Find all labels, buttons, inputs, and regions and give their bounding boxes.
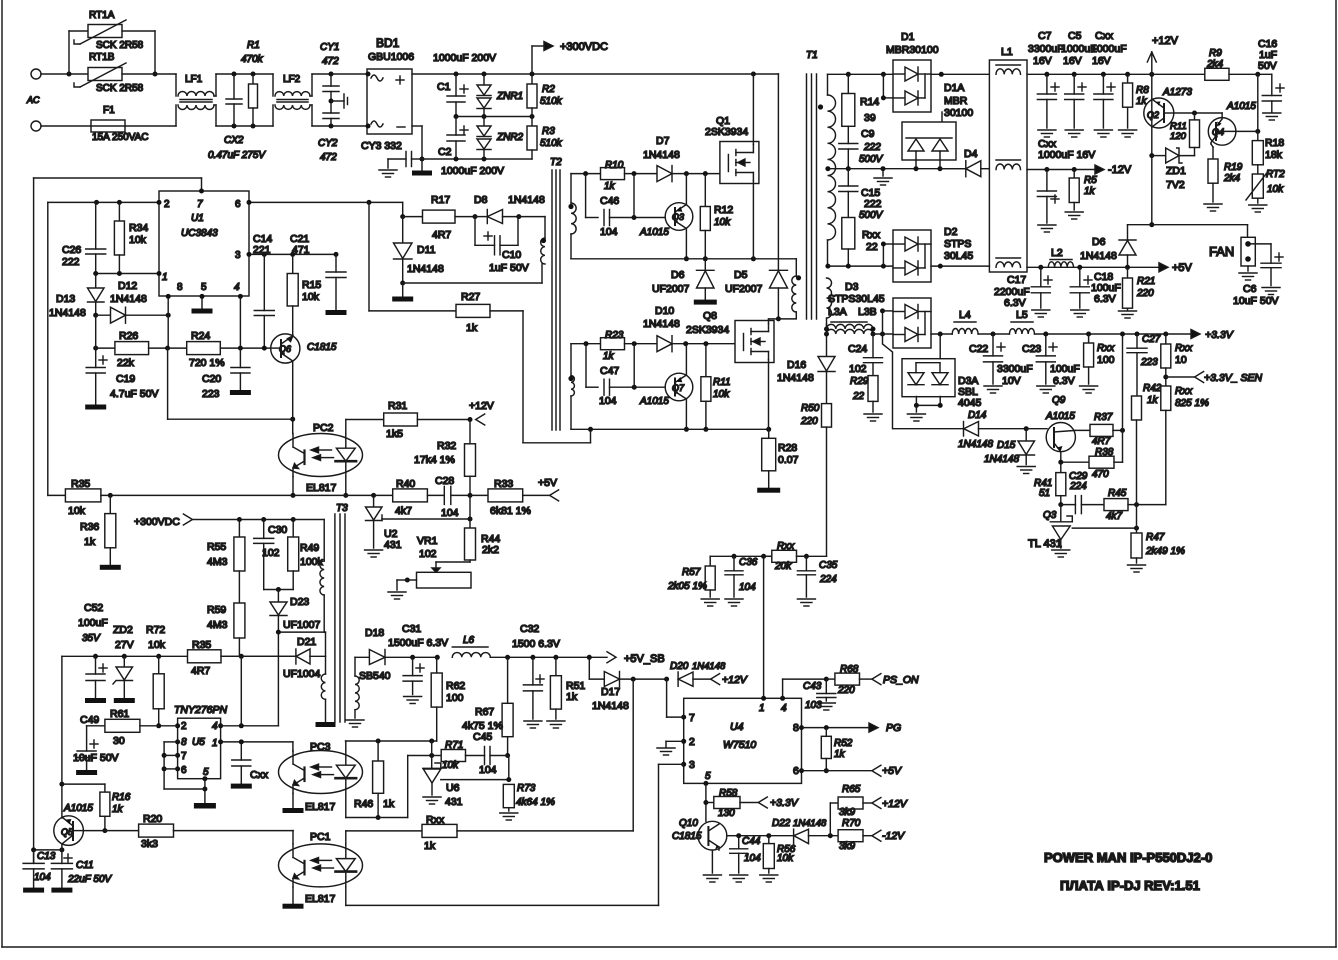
svg-text:2k4: 2k4: [1206, 59, 1224, 70]
svg-text:10: 10: [1175, 354, 1187, 366]
svg-text:470k: 470k: [241, 54, 264, 65]
svg-text:10k: 10k: [302, 291, 320, 303]
svg-text:222: 222: [863, 142, 881, 153]
resistor Rxx1k: [422, 814, 633, 852]
diode D4: [940, 148, 989, 177]
svg-text:A1015: A1015: [639, 227, 669, 238]
svg-text:CX2: CX2: [224, 135, 244, 146]
svg-text:A1015: A1015: [1045, 411, 1075, 422]
svg-text:22uF 50V: 22uF 50V: [67, 874, 113, 885]
diode D6b 1N4148: [1080, 225, 1136, 268]
svg-text:4.7uF 50V: 4.7uF 50V: [110, 388, 158, 400]
wire: [939, 334, 941, 359]
svg-text:R61: R61: [110, 708, 129, 720]
svg-text:R57: R57: [682, 567, 701, 578]
svg-text:10k: 10k: [714, 217, 731, 228]
optocoupler PC3: [279, 741, 363, 813]
resistor R72: [146, 624, 166, 726]
wire fan feed: [1128, 156, 1248, 238]
wire: [1058, 452, 1063, 465]
varistor ZNR2: [477, 117, 524, 160]
svg-text:MBR: MBR: [944, 95, 968, 107]
diode D16: [777, 324, 835, 404]
svg-text:1N4148: 1N4148: [777, 372, 814, 384]
svg-text:C17: C17: [1007, 274, 1026, 286]
wire pin7: [667, 679, 684, 717]
wire: [291, 477, 296, 498]
diode D22: [772, 818, 838, 844]
svg-text:6: 6: [235, 199, 241, 210]
resistor R55: [207, 520, 245, 572]
resistor R56: [760, 836, 796, 882]
svg-text:R35: R35: [71, 478, 90, 490]
wire: [168, 348, 293, 419]
resistor R10: [601, 160, 658, 192]
svg-text:R52: R52: [834, 738, 853, 749]
svg-text:6.3V: 6.3V: [1053, 375, 1075, 387]
wire +12V feed: [523, 311, 591, 443]
wire PC1 cathode: [346, 764, 659, 905]
wire PC3 emitter: [283, 794, 304, 814]
svg-text:C11: C11: [76, 860, 94, 871]
svg-text:4k64 1%: 4k64 1%: [516, 797, 555, 808]
svg-text:1k: 1k: [112, 804, 124, 815]
resistor R15: [287, 254, 321, 306]
resistor R57: [667, 556, 719, 606]
svg-text:1k: 1k: [383, 798, 395, 810]
svg-text:EL817: EL817: [305, 893, 336, 905]
capacitor C26: [62, 202, 106, 273]
optocoupler PC2: [279, 419, 363, 494]
wire pin1 net: [221, 739, 293, 751]
svg-text:L3A: L3A: [828, 306, 847, 318]
svg-text:C52: C52: [84, 602, 103, 614]
resistor R70: [838, 818, 905, 852]
resistor Rxx20k: [764, 541, 807, 572]
wire Q8 source: [768, 360, 770, 430]
svg-text:Q3: Q3: [672, 212, 684, 222]
capacitor C22: [969, 334, 1033, 393]
thermistor RT2: [1246, 165, 1285, 212]
rectifier D3A: [902, 359, 982, 409]
+5V arrow: [1159, 262, 1193, 274]
wire: [633, 344, 635, 388]
svg-text:ПЛАТА IP-DJ REV:1.51: ПЛАТА IP-DJ REV:1.51: [1060, 878, 1200, 893]
svg-text:1N4148: 1N4148: [793, 818, 827, 829]
fan connector: [1209, 237, 1255, 266]
svg-text:L6: L6: [463, 635, 475, 646]
svg-text:1N4148: 1N4148: [508, 194, 545, 206]
capacitor C16: [1262, 74, 1284, 120]
resistor R29: [850, 376, 882, 421]
transistor Q3: [639, 203, 693, 238]
resistor R58: [706, 788, 799, 819]
wire: [69, 31, 88, 74]
svg-text:10k: 10k: [1267, 184, 1284, 195]
zener ZD1: [1149, 148, 1194, 191]
svg-text:4R7: 4R7: [432, 229, 451, 241]
svg-text:1: 1: [162, 272, 168, 283]
svg-text:D1A: D1A: [944, 82, 964, 94]
svg-text:D8: D8: [474, 194, 488, 206]
svg-text:R72: R72: [146, 624, 165, 636]
svg-text:R49: R49: [300, 542, 319, 554]
svg-text:UF1004: UF1004: [283, 668, 321, 680]
IC U5 TNY276PN: [174, 704, 228, 781]
svg-text:R34: R34: [129, 222, 148, 234]
resistor R27: [369, 291, 523, 334]
capacitor C7: [1037, 74, 1059, 137]
svg-text:R8: R8: [1136, 85, 1149, 96]
svg-text:C35: C35: [819, 560, 838, 571]
svg-text:R24: R24: [191, 330, 210, 342]
wire: [290, 361, 295, 422]
svg-text:10k: 10k: [777, 853, 794, 864]
capacitor C17: [994, 267, 1052, 317]
svg-text:10uF 50V: 10uF 50V: [73, 752, 119, 764]
svg-text:Cxx: Cxx: [1095, 30, 1114, 42]
svg-text:1N4148: 1N4148: [110, 293, 147, 305]
inductor LF1: [178, 74, 214, 110]
label: [433, 52, 496, 64]
svg-text:C45: C45: [473, 731, 492, 743]
wire: [684, 344, 689, 432]
diode D17: [589, 657, 669, 712]
capacitor C15: [839, 169, 884, 221]
capacitor Cxx: [1094, 74, 1115, 137]
svg-text:472: 472: [322, 56, 339, 67]
resistor R46: [354, 741, 395, 820]
wire top bus: [412, 72, 778, 77]
capacitor C35: [797, 556, 837, 606]
svg-text:R28: R28: [778, 442, 797, 454]
svg-text:+12V: +12V: [882, 798, 908, 810]
svg-text:10uF 50V: 10uF 50V: [1233, 295, 1279, 307]
svg-text:220: 220: [837, 685, 855, 696]
resistor R20: [83, 813, 293, 850]
svg-text:R29: R29: [850, 376, 869, 387]
svg-text:C27: C27: [1142, 334, 1161, 345]
svg-text:4: 4: [234, 282, 240, 293]
wire: [41, 125, 91, 127]
wire PC1 anode: [346, 831, 422, 844]
svg-text:A1015: A1015: [639, 396, 669, 407]
svg-text:C32: C32: [520, 623, 539, 635]
svg-text:0.47uF 275V: 0.47uF 275V: [208, 150, 266, 161]
resistor R68: [826, 664, 872, 696]
svg-text:C22: C22: [969, 343, 988, 355]
capacitor C23: [1022, 334, 1080, 393]
capacitor CY3: [361, 140, 422, 167]
capacitor C14: [254, 254, 274, 347]
svg-text:PG: PG: [886, 722, 901, 734]
svg-text:R62: R62: [446, 680, 465, 692]
svg-text:1N4148: 1N4148: [1080, 250, 1117, 262]
label C14: [253, 233, 272, 256]
svg-text:3: 3: [689, 759, 695, 771]
diode D14: [958, 410, 1029, 450]
svg-text:Q2: Q2: [1147, 110, 1159, 120]
svg-text:16V: 16V: [1033, 55, 1052, 67]
svg-text:1k: 1k: [1147, 395, 1159, 406]
svg-text:ZD1: ZD1: [1166, 165, 1186, 177]
svg-text:Q4: Q4: [1212, 127, 1224, 137]
svg-text:1000uF 16V: 1000uF 16V: [1038, 149, 1095, 161]
svg-text:104: 104: [744, 853, 761, 864]
svg-text:1k: 1k: [424, 840, 436, 852]
svg-text:104: 104: [479, 764, 497, 776]
diode D12: [93, 280, 171, 323]
inductor L4: [952, 309, 978, 334]
diode D23: [270, 590, 321, 633]
svg-text:C1: C1: [437, 81, 451, 93]
diode D10: [643, 305, 735, 352]
svg-text:7V2: 7V2: [1166, 179, 1185, 191]
wire pin4 net: [221, 632, 279, 728]
svg-text:R18: R18: [1265, 137, 1284, 149]
svg-text:2SK3934: 2SK3934: [705, 126, 748, 138]
svg-text:18k: 18k: [1265, 149, 1283, 161]
svg-text:500V: 500V: [859, 210, 884, 221]
svg-text:R19: R19: [1224, 162, 1243, 173]
svg-text:7: 7: [197, 199, 203, 210]
svg-text:6.3V: 6.3V: [1004, 297, 1026, 309]
transformer T1 core: [806, 50, 818, 319]
svg-text:D1: D1: [901, 31, 915, 43]
svg-text:+3.3V: +3.3V: [770, 797, 799, 809]
svg-text:+12V: +12V: [1152, 35, 1179, 47]
svg-text:4R7: 4R7: [191, 665, 210, 677]
svg-text:TL 431: TL 431: [1028, 538, 1062, 550]
resistor R33: [470, 478, 550, 517]
resistor R71: [432, 740, 485, 771]
svg-text:102: 102: [419, 548, 437, 560]
resistor R24: [165, 330, 271, 369]
resistor R37: [1075, 412, 1125, 447]
svg-text:510k: 510k: [540, 96, 563, 107]
svg-text:8: 8: [177, 282, 183, 293]
svg-text:L5: L5: [1016, 309, 1028, 321]
svg-text:6: 6: [181, 765, 187, 776]
svg-text:0.07: 0.07: [778, 454, 799, 466]
diode D5: [725, 269, 788, 321]
wire: [62, 784, 105, 818]
svg-text:PC3: PC3: [310, 741, 331, 753]
svg-text:PS_ON: PS_ON: [883, 674, 919, 686]
resistor R2: [527, 74, 563, 117]
svg-text:D16: D16: [787, 359, 806, 371]
transistor Q6: [271, 306, 337, 363]
resistor R51: [547, 657, 586, 728]
diode D20: [670, 661, 726, 686]
resistor R31: [346, 400, 470, 440]
bridge rectifier BD1: [366, 36, 415, 134]
+3.3V arrow: [1191, 329, 1234, 341]
wire standby rail: [62, 654, 296, 659]
wire: [907, 397, 942, 422]
svg-text:Q9: Q9: [1052, 395, 1066, 406]
+5V_SB arrow: [607, 652, 665, 665]
svg-text:EL817: EL817: [306, 482, 337, 494]
svg-text:22: 22: [852, 391, 865, 402]
wire: [571, 341, 601, 375]
wire pin8: [166, 294, 171, 348]
svg-text:+12V: +12V: [722, 674, 748, 686]
svg-text:SCK 2R58: SCK 2R58: [96, 40, 144, 51]
rectifier D2: [893, 226, 973, 282]
svg-text:2: 2: [164, 199, 170, 210]
diode D6: [652, 259, 717, 305]
svg-text:D22: D22: [772, 818, 791, 829]
svg-text:R23: R23: [605, 330, 624, 341]
svg-text:FAN: FAN: [1209, 244, 1234, 259]
wire: [931, 332, 952, 337]
svg-text:C30: C30: [268, 524, 287, 536]
capacitor C52: [85, 656, 107, 703]
svg-text:C20: C20: [202, 373, 221, 385]
resistor R47: [1128, 532, 1186, 572]
svg-text:Rxx: Rxx: [1097, 343, 1115, 354]
svg-text:T1: T1: [806, 50, 818, 61]
svg-text:1N4148: 1N4148: [407, 263, 444, 275]
wire: [881, 74, 893, 100]
wire source bus: [571, 234, 796, 261]
svg-text:3300uF: 3300uF: [997, 363, 1033, 375]
svg-text:6: 6: [793, 765, 799, 777]
svg-text:ZNR2: ZNR2: [496, 132, 524, 143]
L3A L3B windings: [824, 319, 876, 337]
svg-text:R9: R9: [1209, 48, 1222, 59]
svg-text:100uF: 100uF: [1050, 363, 1080, 375]
svg-text:104: 104: [600, 226, 618, 238]
svg-text:1k: 1k: [834, 749, 846, 760]
svg-text:431: 431: [384, 539, 402, 551]
svg-text:D4: D4: [964, 148, 978, 160]
wire U4 pin1 riser: [763, 556, 765, 698]
wire: [873, 308, 893, 336]
svg-text:R37: R37: [1094, 412, 1113, 423]
svg-text:+3.3V: +3.3V: [1205, 329, 1234, 341]
svg-text:5: 5: [705, 771, 711, 782]
svg-text:SCK 2R58: SCK 2R58: [96, 83, 144, 94]
wire: [586, 174, 598, 218]
svg-text:4R7: 4R7: [1092, 436, 1111, 447]
svg-text:R2: R2: [542, 84, 555, 95]
wire PC3 anode net: [346, 739, 437, 751]
svg-text:R68: R68: [840, 664, 859, 675]
transistor Q4 A1015: [1208, 101, 1256, 145]
svg-text:PC1: PC1: [310, 831, 331, 843]
wire -12V mid rail: [825, 166, 965, 171]
svg-text:30: 30: [113, 735, 125, 747]
svg-text:2k4: 2k4: [1223, 173, 1241, 184]
wire: [931, 72, 989, 77]
svg-text:3k9: 3k9: [839, 841, 856, 852]
svg-text:510k: 510k: [540, 138, 563, 149]
transistor Q7: [639, 373, 693, 407]
svg-text:A1273: A1273: [1162, 87, 1192, 98]
svg-text:22: 22: [866, 241, 878, 253]
diode D18: [359, 627, 415, 682]
ground: [379, 159, 397, 177]
svg-text:470: 470: [1092, 469, 1109, 480]
wire: [571, 171, 601, 203]
power ground bar: [412, 159, 432, 176]
svg-text:+5V: +5V: [1172, 262, 1193, 274]
svg-text:50V: 50V: [1258, 60, 1277, 72]
svg-text:R45: R45: [1108, 488, 1127, 499]
svg-text:4: 4: [781, 703, 787, 714]
resistor R32: [414, 420, 476, 496]
wire: [978, 332, 1009, 337]
svg-text:R31: R31: [388, 400, 407, 412]
svg-text:1000uF: 1000uF: [1091, 43, 1127, 55]
wire PC1 collector: [292, 831, 294, 844]
wire U2 ref: [382, 517, 473, 522]
svg-text:R65: R65: [842, 784, 861, 795]
diode D8: [473, 194, 545, 224]
wire +3.3V rail: [1035, 332, 1195, 337]
svg-text:AC: AC: [26, 95, 40, 105]
resistor R12: [700, 174, 733, 262]
resistor R28: [757, 429, 798, 492]
inductor L5: [1009, 309, 1034, 334]
ground pin2: [657, 741, 684, 755]
wire: [214, 72, 273, 97]
resistor R73: [500, 783, 555, 820]
capacitor C9: [839, 126, 884, 168]
svg-text:1N4148: 1N4148: [692, 661, 726, 672]
wire -12V: [1027, 167, 1096, 172]
svg-text:4045: 4045: [958, 397, 982, 409]
wire: [883, 334, 964, 429]
svg-text:C13: C13: [37, 851, 56, 862]
transistor Q10: [672, 818, 739, 873]
wire: [47, 202, 49, 495]
svg-text:R71: R71: [445, 740, 463, 751]
svg-text:2: 2: [181, 721, 187, 732]
svg-text:471: 471: [292, 244, 310, 256]
svg-text:U6: U6: [446, 782, 460, 794]
label C16: [1258, 38, 1277, 72]
wire Q8 source bus: [571, 396, 771, 432]
svg-text:D6: D6: [671, 269, 685, 281]
svg-text:C31: C31: [402, 623, 421, 635]
capacitor CY2: [318, 101, 339, 163]
svg-text:224: 224: [1069, 481, 1087, 492]
wire: [828, 72, 894, 95]
resistor R1: [241, 40, 264, 126]
thermistor RT1B: [74, 52, 144, 94]
capacitor CX2: [208, 74, 266, 161]
svg-text:6.3V: 6.3V: [1094, 293, 1116, 305]
capacitor C32: [512, 623, 560, 728]
svg-text:1000uF 200V: 1000uF 200V: [433, 52, 496, 64]
svg-text:1000uF 200V: 1000uF 200V: [441, 165, 504, 177]
wire: [632, 679, 634, 831]
transistor Q2 A1273: [1144, 74, 1193, 155]
wire: [368, 202, 370, 311]
rectifier D1: [886, 31, 939, 112]
svg-text:L4: L4: [959, 309, 971, 321]
svg-text:103: 103: [805, 700, 822, 711]
title: [1044, 850, 1212, 865]
svg-text:POWER MAN IP-P550DJ2-0: POWER MAN IP-P550DJ2-0: [1044, 850, 1212, 865]
svg-text:1: 1: [212, 738, 218, 749]
svg-text:R20: R20: [143, 813, 162, 825]
wire: [710, 554, 826, 559]
resistor R61: [87, 708, 159, 747]
